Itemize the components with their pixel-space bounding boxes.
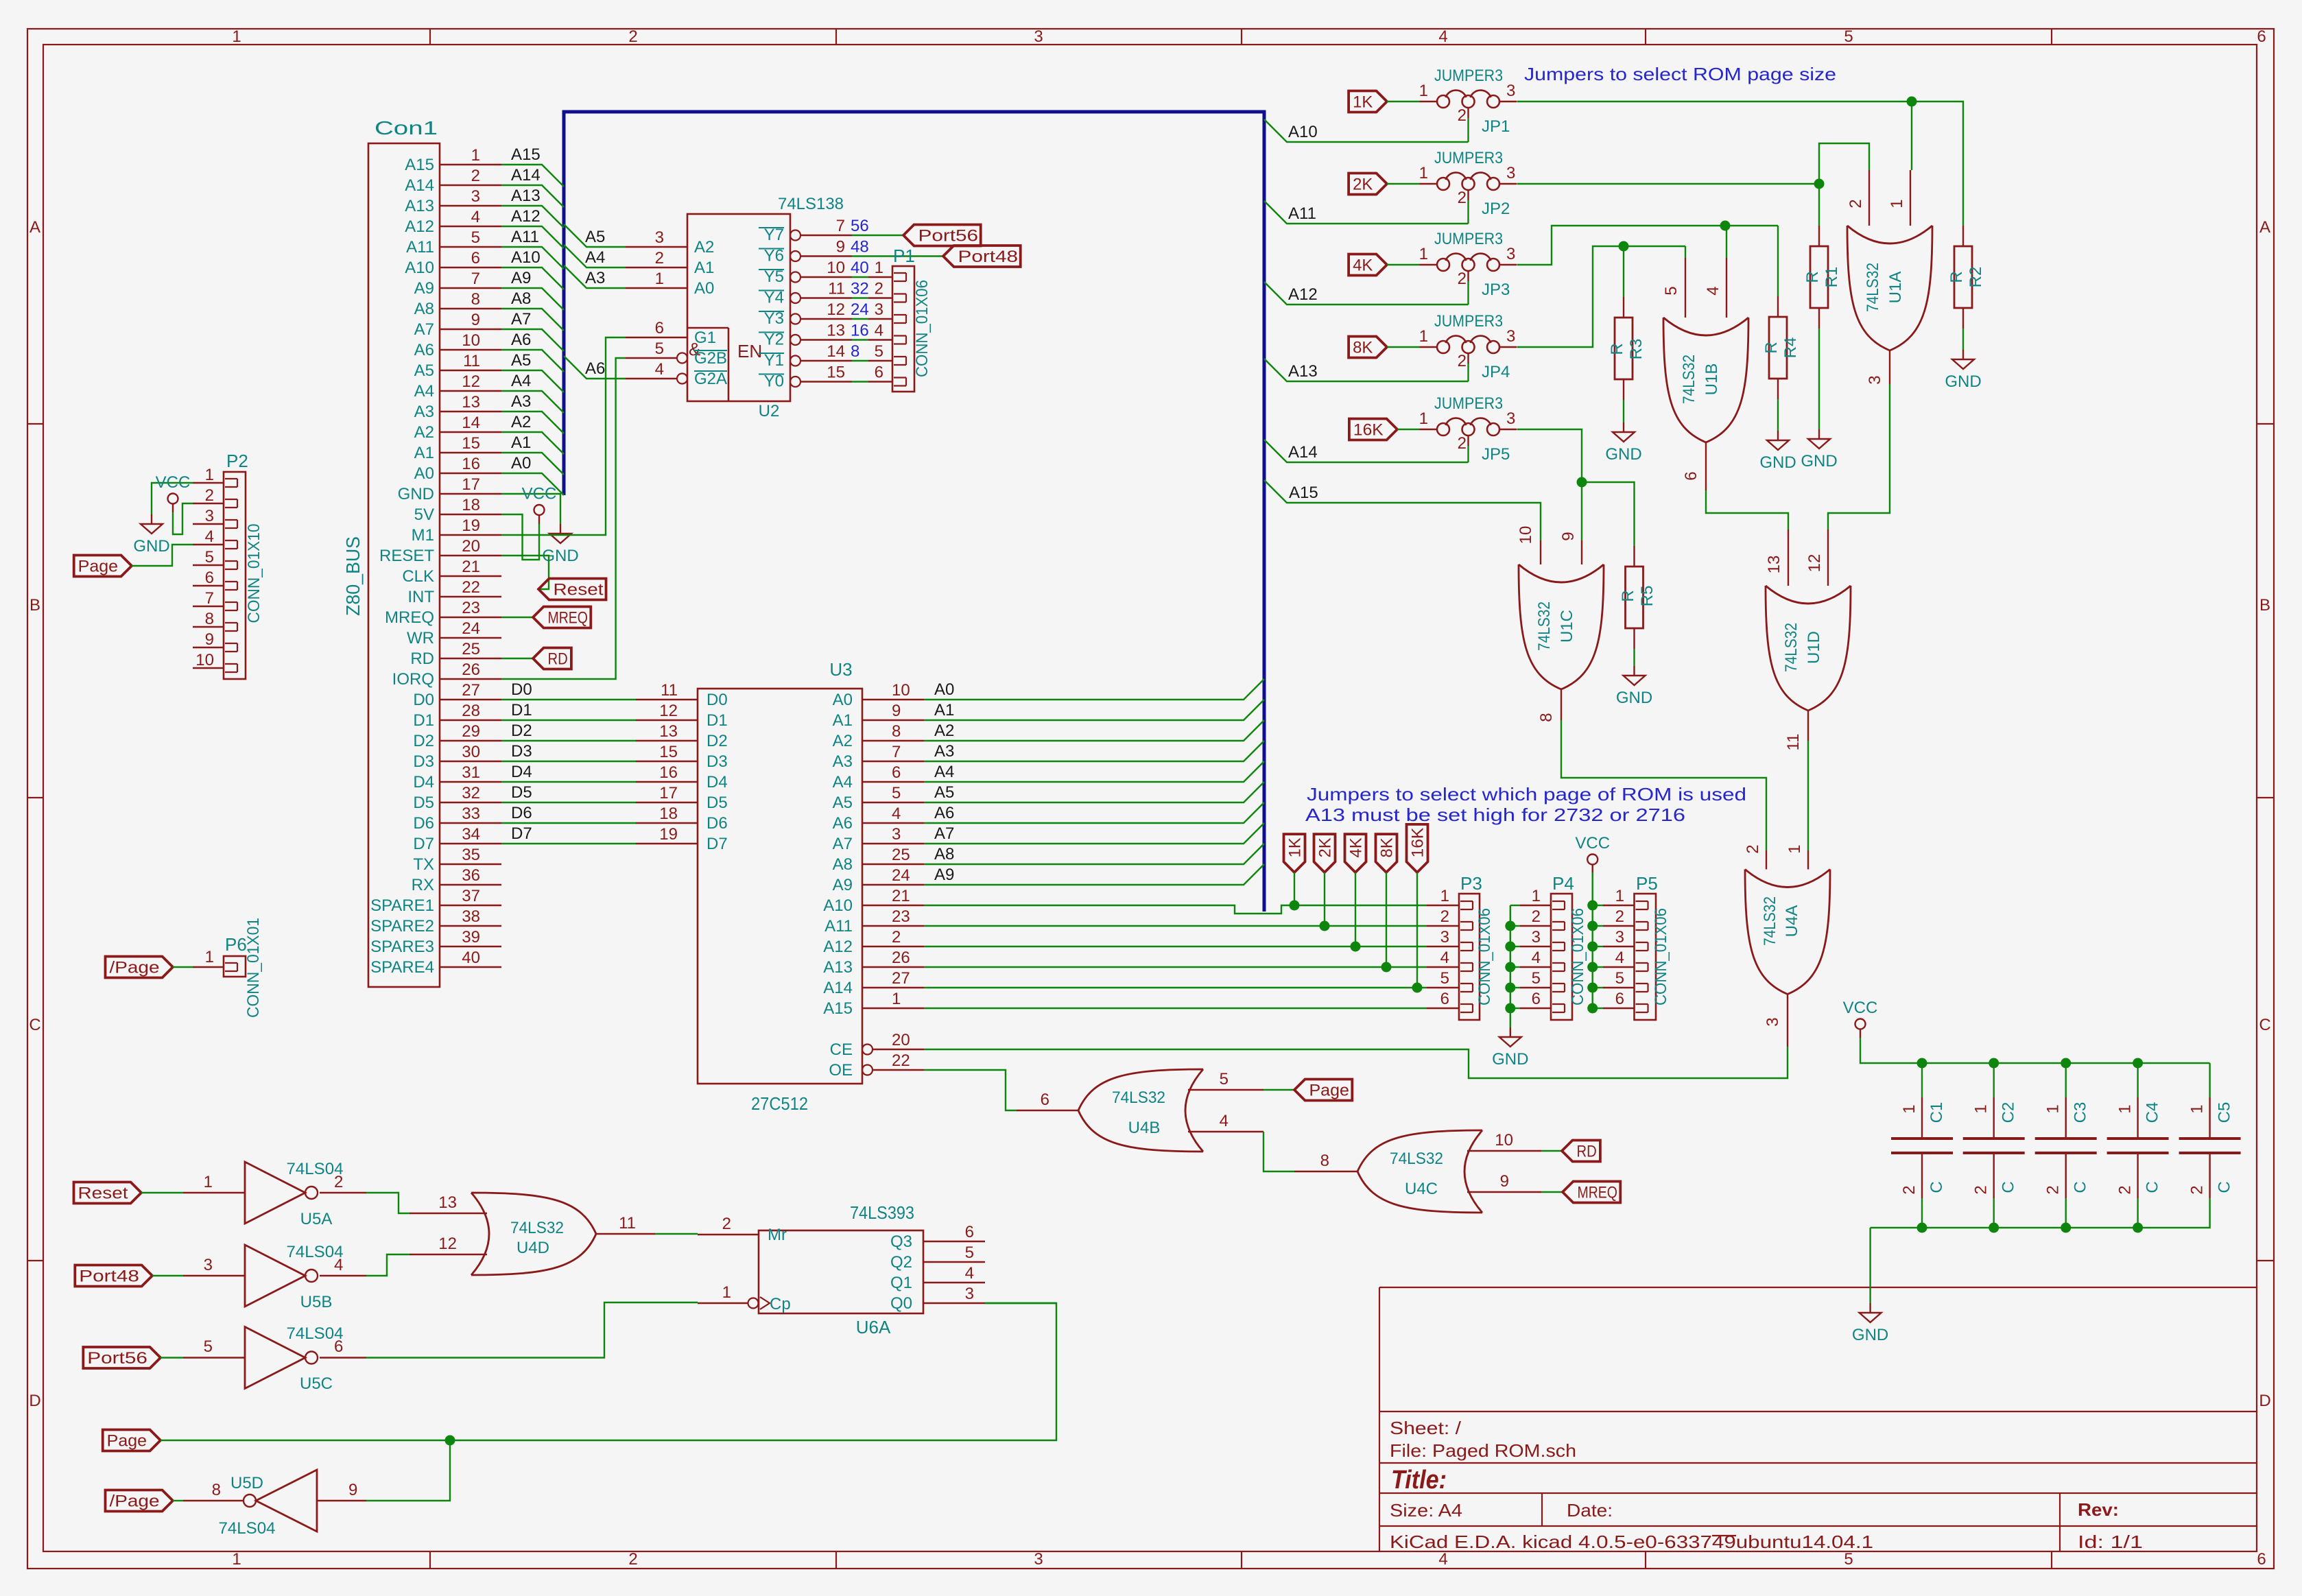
- svg-text:A6: A6: [585, 359, 605, 378]
- svg-text:JUMPER3: JUMPER3: [1434, 312, 1503, 331]
- pin 5 of P2: [193, 564, 224, 566]
- pin 2 of P1: [868, 297, 892, 298]
- svg-text:6: 6: [2257, 1550, 2266, 1569]
- global label RD right: [1562, 1141, 1600, 1162]
- wire A13 from bus to JP4: [1264, 359, 1469, 381]
- inverter U5C 74LS04: [245, 1327, 305, 1389]
- wire VCC to cap rail: [1860, 1038, 2210, 1063]
- svg-text:EN: EN: [737, 341, 762, 361]
- pin A12 of U3: [862, 946, 924, 947]
- or-gate U1A 74LS32: [1847, 226, 1932, 350]
- wire A13 from Con1 to bus: [501, 206, 564, 228]
- svg-text:11: 11: [1784, 734, 1803, 751]
- wire 4K net branch to U1B pin4: [1726, 226, 1727, 258]
- wire U5C.6 to U6A.Cp: [366, 1302, 698, 1358]
- wire JP3 pin3 4K net: [1517, 226, 1778, 265]
- svg-text:JP2: JP2: [1482, 200, 1510, 218]
- jumper JP3 JUMPER3: [1437, 259, 1449, 271]
- svg-text:U3: U3: [829, 659, 852, 680]
- svg-text:Jumpers to select which page o: Jumpers to select which page of ROM is u…: [1307, 784, 1746, 805]
- wire Y6 to Port48: [852, 255, 943, 257]
- pin 3 (A13) of Con1: [440, 205, 501, 206]
- pin 1 of P4: [1520, 905, 1551, 906]
- resistor R3: [1615, 318, 1633, 379]
- svg-text:17: 17: [462, 475, 480, 494]
- pin G2A of U2: [626, 378, 677, 379]
- pin 3 of U5B: [183, 1275, 245, 1276]
- wire 2K label stem: [1324, 872, 1325, 926]
- svg-text:74LS393: 74LS393: [850, 1202, 914, 1223]
- svg-text:A11: A11: [1288, 204, 1316, 223]
- pin 8 of P2: [193, 626, 224, 628]
- svg-text:25: 25: [892, 846, 910, 864]
- svg-text:9: 9: [892, 702, 901, 720]
- svg-text:2: 2: [1458, 434, 1467, 453]
- svg-text:10: 10: [462, 331, 480, 350]
- wire A13 from U3 to P3: [924, 966, 1427, 968]
- wire A2 from U3 to bus: [924, 720, 1264, 741]
- svg-text:JP1: JP1: [1482, 117, 1510, 136]
- svg-text:A0: A0: [934, 680, 954, 699]
- svg-text:A: A: [29, 218, 40, 237]
- svg-text:36: 36: [462, 866, 480, 885]
- svg-text:D7: D7: [707, 835, 728, 853]
- svg-text:5: 5: [875, 342, 883, 361]
- svg-text:D7: D7: [511, 824, 532, 843]
- wire 1K label to JP1 pin1: [1387, 101, 1420, 102]
- or-gate U4C 74LS32 mirrored: [1357, 1130, 1482, 1213]
- svg-text:JP5: JP5: [1482, 445, 1510, 464]
- svg-text:1: 1: [2188, 1104, 2207, 1113]
- wire IORQ pin26 to U2 G2B: [501, 358, 626, 679]
- wire A10 from bus to JP1: [1264, 119, 1469, 142]
- svg-text:A7: A7: [833, 835, 853, 853]
- power VCC above P5: [1587, 855, 1598, 865]
- wire 4K label stem: [1355, 872, 1356, 946]
- pin A8 of U3: [862, 863, 924, 865]
- svg-text:3: 3: [965, 1285, 974, 1303]
- svg-text:A0: A0: [414, 464, 434, 483]
- global label MREQ: [533, 607, 591, 628]
- svg-text:23: 23: [462, 599, 480, 617]
- wire A2 from Con1 to bus: [501, 432, 564, 454]
- ground below R2: [1962, 350, 1964, 359]
- wire D4 from Con1 to U3: [501, 781, 636, 783]
- svg-text:Sheet: /: Sheet: /: [1390, 1418, 1462, 1438]
- svg-text:16: 16: [659, 763, 678, 782]
- pin 22 (INT) of Con1: [440, 596, 501, 597]
- connector P1: [892, 266, 914, 392]
- wire A6 from U3 to bus: [924, 802, 1264, 823]
- wire 8K label stem: [1386, 872, 1387, 967]
- svg-text:3: 3: [875, 300, 883, 319]
- wire C1 bottom: [1921, 1198, 1923, 1228]
- svg-text:A13 must be set high for 2732: A13 must be set high for 2732 or 2716: [1305, 805, 1685, 825]
- wire C4 bottom: [2137, 1198, 2138, 1228]
- pin Y0 of U2: [790, 377, 800, 387]
- wire 4K net to R4: [1777, 226, 1779, 296]
- pin 3 output of U4A: [1787, 994, 1788, 1047]
- svg-text:2: 2: [2044, 1185, 2063, 1194]
- svg-text:D6: D6: [413, 814, 434, 833]
- svg-text:74LS32: 74LS32: [1112, 1088, 1165, 1107]
- svg-text:14: 14: [827, 342, 845, 361]
- global label Page bottom: [103, 1430, 161, 1451]
- svg-text:1: 1: [1615, 887, 1624, 905]
- pin 39 (SPARE3) of Con1: [440, 946, 501, 947]
- svg-text:2: 2: [722, 1215, 731, 1233]
- power VCC at Con1 pin18: [534, 505, 545, 515]
- svg-text:A14: A14: [511, 166, 541, 184]
- pin A1 of U2: [626, 267, 687, 268]
- svg-text:INT: INT: [407, 588, 434, 606]
- global label 4K above P3: [1345, 834, 1366, 872]
- pin A14 of U3: [862, 987, 924, 988]
- pin 5 of U4B: [1188, 1089, 1263, 1091]
- svg-text:5: 5: [1844, 27, 1853, 46]
- svg-text:3: 3: [1615, 928, 1624, 946]
- wire A11 from U3 to P3: [924, 925, 1427, 927]
- svg-text:Page: Page: [107, 1432, 147, 1451]
- wire P5 pin3 stub: [1593, 946, 1603, 947]
- svg-text:37: 37: [462, 887, 480, 905]
- svg-text:8K: 8K: [1353, 339, 1373, 357]
- pin 6 of P4: [1520, 1008, 1551, 1009]
- pin 12 of U1D: [1827, 529, 1829, 586]
- wire 1K net branch to U1A pin1: [1911, 102, 1912, 170]
- wire 8K label to JP4 pin1: [1387, 346, 1420, 348]
- svg-text:10: 10: [1517, 526, 1535, 545]
- pin Q2 of U6A: [923, 1261, 985, 1263]
- pin G2B of U2: [626, 357, 677, 359]
- global label /Page bottom: [106, 1490, 174, 1512]
- svg-text:3: 3: [1034, 1550, 1043, 1569]
- pin 6 of P1: [868, 381, 892, 382]
- svg-text:A11: A11: [511, 228, 539, 246]
- svg-text:D1: D1: [707, 711, 728, 730]
- svg-text:VCC: VCC: [522, 485, 557, 503]
- pin 3 of P5: [1603, 946, 1635, 947]
- wire P5 pin2 stub: [1593, 925, 1603, 927]
- wire 5V pin18 to VCC: [501, 514, 539, 560]
- svg-text:15: 15: [462, 434, 480, 453]
- svg-text:R4: R4: [1781, 337, 1800, 359]
- or-gate U1B 74LS32: [1663, 318, 1748, 442]
- svg-text:3: 3: [471, 187, 480, 206]
- svg-text:A2: A2: [833, 732, 853, 750]
- wire M1 pin19 to U2 G1: [501, 337, 626, 535]
- svg-text:4: 4: [1220, 1112, 1229, 1130]
- svg-text:SPARE1: SPARE1: [370, 896, 434, 915]
- svg-text:A14: A14: [405, 176, 434, 195]
- jumper JP4 JUMPER3: [1437, 341, 1449, 353]
- svg-text:C3: C3: [2072, 1102, 2090, 1123]
- jumper JP2 JUMPER3: [1437, 178, 1449, 190]
- svg-text:A10: A10: [405, 259, 434, 277]
- svg-text:18: 18: [659, 805, 678, 823]
- wire /Page to U5D.8: [173, 1500, 183, 1501]
- svg-text:RD: RD: [410, 650, 434, 668]
- svg-text:Y5: Y5: [764, 267, 784, 286]
- pin Q0 of U6A: [923, 1302, 985, 1304]
- svg-text:3: 3: [892, 825, 901, 844]
- svg-text:3: 3: [1034, 27, 1043, 46]
- svg-text:A3: A3: [833, 752, 853, 771]
- svg-text:IORQ: IORQ: [392, 670, 434, 689]
- svg-text:TX: TX: [413, 855, 434, 874]
- svg-text:A4: A4: [934, 763, 954, 781]
- svg-text:A: A: [2259, 218, 2270, 237]
- svg-text:Y6: Y6: [764, 247, 784, 265]
- pin 1 of P2: [193, 482, 224, 484]
- pin 28 (D1) of Con1: [440, 719, 501, 721]
- svg-text:A0: A0: [833, 691, 853, 709]
- pin A15 of U3: [862, 1008, 924, 1009]
- global label Page right: [1294, 1080, 1352, 1101]
- svg-text:A6: A6: [511, 331, 531, 349]
- pin 15 (A1) of Con1: [440, 452, 501, 453]
- wire P5 pin5 stub: [1593, 987, 1603, 988]
- wire P4 pin1 stub: [1510, 905, 1520, 906]
- svg-text:8: 8: [1320, 1152, 1329, 1170]
- svg-text:U5A: U5A: [300, 1210, 333, 1228]
- svg-text:G2B: G2B: [694, 349, 727, 368]
- svg-text:8: 8: [851, 342, 859, 361]
- wire Reset to U5A.1: [141, 1192, 183, 1193]
- svg-text:CE: CE: [830, 1040, 853, 1059]
- svg-text:6: 6: [2257, 27, 2266, 46]
- wire A14 from Con1 to bus: [501, 185, 564, 207]
- svg-text:11: 11: [661, 681, 678, 700]
- wire P4 pin4 stub: [1510, 966, 1520, 968]
- svg-text:38: 38: [462, 907, 480, 926]
- svg-text:GND: GND: [398, 485, 434, 503]
- svg-text:3: 3: [205, 507, 214, 525]
- pin 2 Mr of U6A: [698, 1234, 759, 1235]
- wire D6 from Con1 to U3: [501, 822, 636, 824]
- svg-text:10: 10: [827, 259, 845, 277]
- pin 2 of P2: [193, 503, 224, 504]
- svg-text:U1A: U1A: [1886, 272, 1905, 304]
- svg-text:5: 5: [1662, 286, 1681, 295]
- pin Y7 of U2: [790, 230, 800, 241]
- svg-text:U4B: U4B: [1128, 1119, 1161, 1137]
- svg-text:A11: A11: [406, 238, 434, 257]
- svg-text:Y7: Y7: [764, 226, 784, 244]
- svg-text:20: 20: [462, 537, 480, 556]
- wire A9 from Con1 to bus: [501, 288, 564, 310]
- svg-text:U6A: U6A: [856, 1317, 891, 1337]
- svg-text:A2: A2: [414, 423, 434, 442]
- svg-text:C: C: [1927, 1181, 1946, 1193]
- svg-text:1: 1: [655, 270, 664, 288]
- wire U4D.11 to U6A.Mr: [655, 1233, 698, 1235]
- svg-text:U4C: U4C: [1405, 1180, 1438, 1198]
- pin D2 of U3: [636, 740, 698, 741]
- wire C3 top: [2065, 1063, 2066, 1097]
- pin 27 (D0) of Con1: [440, 699, 501, 700]
- wire Page net: [161, 1303, 1056, 1440]
- pin 29 (D2) of Con1: [440, 740, 501, 741]
- svg-text:39: 39: [462, 928, 480, 946]
- pin 1 (A15) of Con1: [440, 164, 501, 165]
- global label Reset bottom: [74, 1182, 142, 1204]
- pin 2 of P5: [1603, 925, 1635, 927]
- pin 12 of U4D: [410, 1254, 487, 1255]
- wire JP3 pin2 to A12 row: [1467, 281, 1469, 305]
- global label 16K at JP5: [1349, 419, 1397, 440]
- wire 2K net to U1A pin2: [1819, 143, 1869, 184]
- pin 1 of P5: [1603, 905, 1635, 906]
- wire OE to U4B output: [924, 1070, 1017, 1110]
- svg-text:R1: R1: [1823, 267, 1841, 288]
- wire D5 from Con1 to U3: [501, 802, 636, 803]
- pin Y1 of U2: [790, 356, 800, 366]
- pin 13 of U4D: [410, 1213, 487, 1214]
- pin 6 output of U1B: [1705, 442, 1707, 490]
- svg-text:6: 6: [655, 319, 664, 337]
- svg-text:A9: A9: [414, 279, 434, 298]
- svg-text:A1: A1: [694, 259, 714, 277]
- pin 6 of U5C: [320, 1357, 366, 1358]
- svg-text:A2: A2: [934, 722, 954, 740]
- connector P3: [1459, 894, 1480, 1020]
- pin 33 (D6) of Con1: [440, 822, 501, 824]
- wire U4B.4 to U4C.8: [1263, 1132, 1294, 1171]
- ground below P4: [1510, 1027, 1511, 1037]
- inverter U5B 74LS04: [245, 1245, 305, 1307]
- wire U4C.9 to MREQ: [1541, 1191, 1563, 1193]
- pin 17 (GND) of Con1: [440, 493, 501, 495]
- svg-text:D5: D5: [413, 794, 434, 812]
- svg-text:1: 1: [471, 146, 480, 165]
- svg-text:Port56: Port56: [918, 227, 979, 246]
- wire A1 from Con1 to bus: [501, 453, 564, 475]
- pin 4 of U5B: [320, 1275, 366, 1276]
- svg-text:A13: A13: [1288, 362, 1318, 381]
- junction dots: [445, 1436, 455, 1446]
- wire 2K label to JP2 pin1: [1387, 183, 1420, 184]
- pin 5 (A11) of Con1: [440, 246, 501, 248]
- wire P4 pin2 stub: [1510, 925, 1520, 927]
- or-gate U4A 74LS32: [1745, 870, 1830, 994]
- pin 4 of P2: [193, 544, 224, 545]
- svg-text:Date:: Date:: [1567, 1500, 1613, 1521]
- svg-text:MREQ: MREQ: [385, 608, 434, 627]
- pin A7 of U3: [862, 843, 924, 844]
- pin Q3 of U6A: [923, 1241, 985, 1242]
- pin 3 of P2: [193, 523, 224, 525]
- pin 12 (A4) of Con1: [440, 390, 501, 392]
- pin 9 of U1C: [1581, 540, 1582, 564]
- svg-text:/Page: /Page: [110, 1492, 160, 1511]
- svg-text:A0: A0: [694, 279, 714, 298]
- svg-text:48: 48: [851, 238, 869, 257]
- svg-text:A4: A4: [833, 773, 853, 791]
- svg-text:D0: D0: [413, 691, 434, 709]
- svg-text:U2: U2: [759, 402, 780, 420]
- svg-text:/Page: /Page: [110, 959, 160, 977]
- pin 13 (A3) of Con1: [440, 411, 501, 412]
- pin 8 output of U4C: [1294, 1171, 1357, 1172]
- svg-text:RD: RD: [548, 650, 568, 669]
- svg-text:A1: A1: [934, 701, 954, 719]
- svg-text:6: 6: [205, 569, 214, 587]
- pin 16 (A0) of Con1: [440, 473, 501, 474]
- svg-text:6: 6: [965, 1223, 974, 1241]
- svg-text:D3: D3: [413, 752, 434, 771]
- svg-text:74LS32: 74LS32: [510, 1219, 564, 1237]
- decoder U2 74LS138: [687, 214, 790, 401]
- svg-text:5: 5: [1440, 969, 1449, 988]
- svg-text:A3: A3: [934, 742, 954, 761]
- svg-text:5: 5: [1220, 1070, 1229, 1088]
- pin 18 (5V) of Con1: [440, 514, 501, 515]
- svg-text:A13: A13: [823, 958, 853, 977]
- svg-text:A13: A13: [511, 187, 541, 205]
- svg-text:74LS32: 74LS32: [1782, 623, 1801, 672]
- power VCC at P2 pin2: [168, 494, 178, 504]
- svg-text:17: 17: [659, 784, 678, 802]
- svg-text:G1: G1: [694, 329, 716, 347]
- svg-text:27: 27: [892, 969, 910, 988]
- wire U6A.Q0 to Page net: [985, 1302, 1056, 1304]
- ground below R5: [1633, 666, 1635, 676]
- svg-text:A6: A6: [833, 814, 853, 833]
- svg-text:Y0: Y0: [764, 372, 784, 391]
- pin 25 (RD) of Con1: [440, 658, 501, 659]
- svg-text:D3: D3: [707, 752, 728, 771]
- pin 11 (A5) of Con1: [440, 370, 501, 371]
- pin D7 of U3: [636, 843, 698, 844]
- wire 8K net to U1B pin5: [1685, 246, 1686, 258]
- svg-text:2: 2: [892, 928, 901, 946]
- svg-text:16K: 16K: [1353, 421, 1384, 440]
- pin 10 of P2: [193, 667, 224, 669]
- wire cap rail down to C5: [2209, 1063, 2210, 1097]
- svg-text:8: 8: [892, 722, 901, 741]
- pin Y3 of U2: [790, 314, 800, 324]
- svg-text:12: 12: [1805, 554, 1824, 573]
- svg-text:D2: D2: [707, 732, 728, 750]
- svg-text:Q1: Q1: [890, 1274, 912, 1292]
- resistor R4: [1769, 317, 1787, 379]
- ground below R1: [1818, 429, 1820, 439]
- svg-text:A15: A15: [511, 145, 541, 164]
- svg-text:40: 40: [851, 259, 869, 277]
- wire U4B.5 to Page label: [1263, 1089, 1294, 1091]
- svg-text:1: 1: [722, 1283, 731, 1302]
- pin 1 Cp of U6A: [748, 1298, 759, 1309]
- counter U6A 74LS393: [759, 1230, 923, 1313]
- svg-text:A14: A14: [1288, 443, 1318, 462]
- svg-text:A11: A11: [824, 917, 853, 936]
- svg-text:21: 21: [892, 887, 910, 905]
- wire R4 to ground: [1777, 379, 1779, 399]
- svg-text:Rev:: Rev:: [2078, 1499, 2119, 1520]
- global label Port48 bottom: [75, 1265, 152, 1287]
- svg-text:10: 10: [892, 681, 910, 700]
- svg-text:A15: A15: [823, 999, 853, 1018]
- or-gate U4D 74LS32: [471, 1193, 596, 1275]
- pin 1 of P6: [193, 966, 224, 968]
- svg-text:9: 9: [1559, 532, 1578, 540]
- wire A4 from Con1 to bus: [501, 391, 564, 413]
- svg-text:14: 14: [462, 414, 480, 432]
- pin 4 of U4B: [1188, 1131, 1263, 1132]
- svg-text:6: 6: [1440, 990, 1449, 1008]
- pin 5 of P3: [1427, 987, 1459, 988]
